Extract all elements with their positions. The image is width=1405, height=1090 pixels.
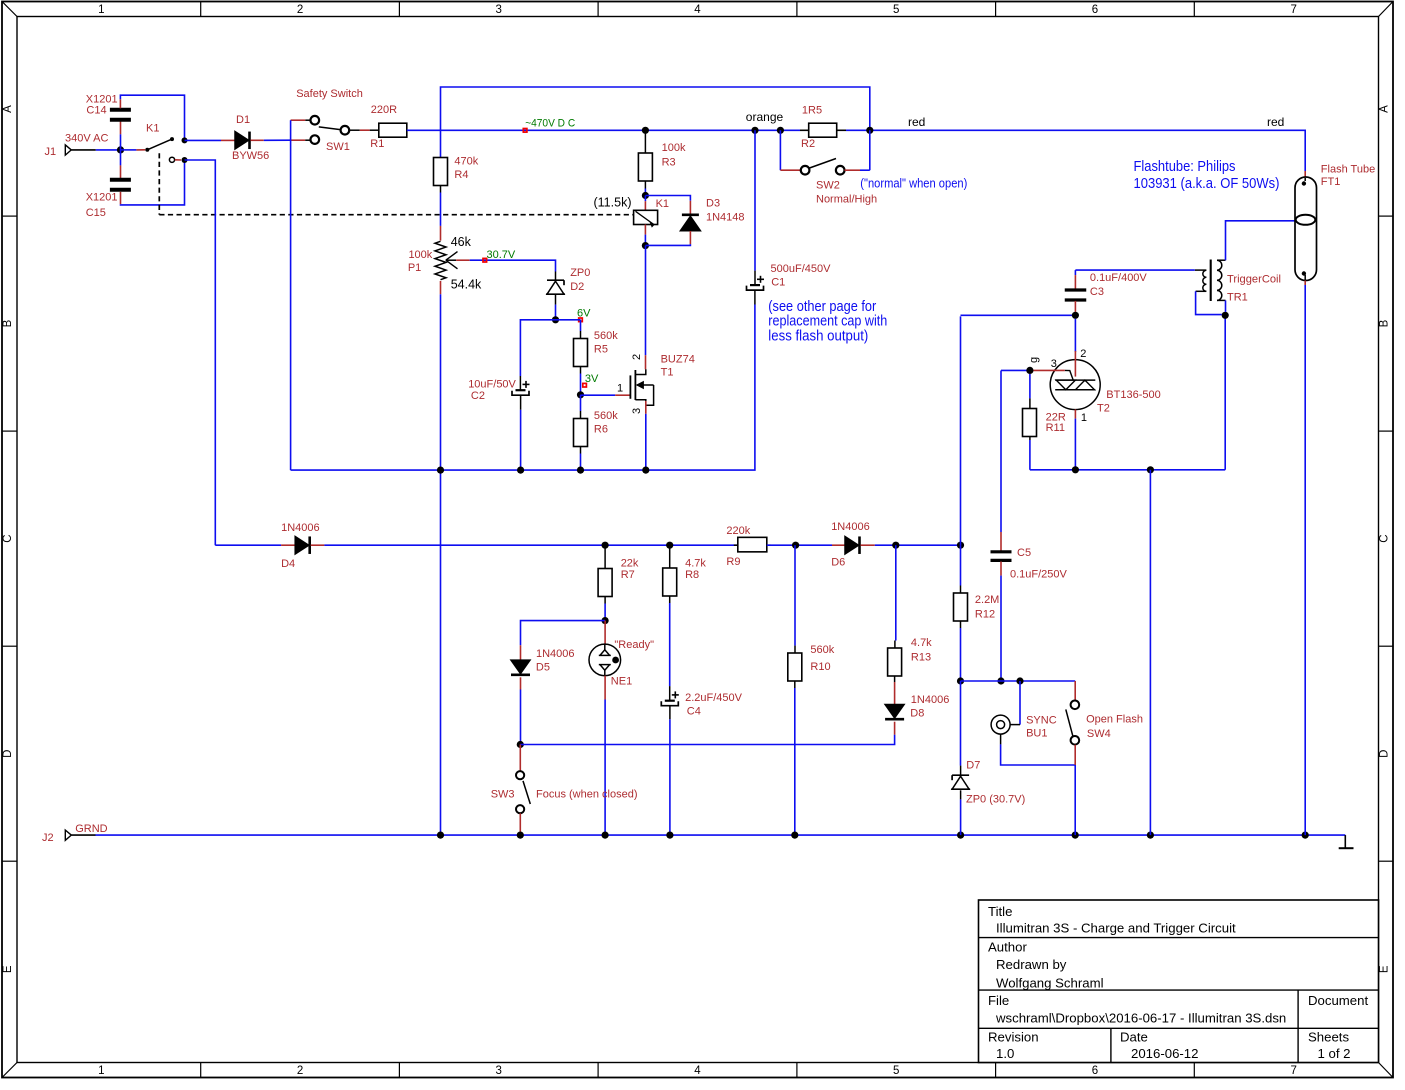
svg-text:C14: C14 [86,104,106,116]
resistor R10 560k [794,545,796,645]
svg-text:R9: R9 [726,556,740,568]
wire R7 to NE1 node [604,597,606,604]
svg-text:("normal" when open): ("normal" when open) [860,177,967,191]
zener diode D2 ZP0 [547,279,564,281]
wire D5 to SW3 node [520,677,522,689]
ground bus junction [791,832,798,839]
ground bus junction [602,832,609,839]
svg-text:220R: 220R [371,104,397,116]
wire R4 to P1 [440,186,442,193]
svg-text:1: 1 [98,4,104,16]
diode D4 1N4006 [295,536,309,554]
resistor R2 1R5 [809,123,837,137]
svg-text:R12: R12 [975,609,995,621]
wire SW1 to R1 [349,129,360,131]
svg-text:TR1: TR1 [1227,291,1248,303]
capacitor C4 2.2uF/450V [665,700,675,702]
wire R3 to relay coil node [644,181,646,189]
wire SW1 upper contact down to common bus [305,119,310,121]
wire coil bottom to T1 drain [645,246,647,356]
svg-text:5: 5 [893,1065,899,1077]
svg-text:1: 1 [617,383,623,395]
svg-text:Redrawn by: Redrawn by [996,957,1067,972]
wire BU1 shell to SW4 bottom [1000,734,1002,744]
capacitor C3 0.1uF/400V [1074,270,1076,275]
svg-text:BT136-500: BT136-500 [1106,389,1160,401]
svg-text:R7: R7 [621,569,635,581]
frame column ticks and numbers [200,2,202,17]
svg-text:D: D [1379,750,1391,758]
resistor R9 220k [734,544,738,546]
svg-text:560k: 560k [810,644,834,656]
svg-text:2: 2 [631,354,643,360]
svg-text:R4: R4 [454,169,468,181]
wire NE1 to ground bus [604,676,606,700]
ground symbol [1344,835,1346,848]
wire node to D5 [521,621,606,646]
svg-text:3: 3 [631,408,643,414]
svg-text:1N4006: 1N4006 [536,648,575,660]
svg-text:X1201: X1201 [86,192,118,204]
svg-text:E: E [1379,965,1391,973]
svg-text:wschraml\Dropbox\2016-06-17 -: wschraml\Dropbox\2016-06-17 - Illumitran… [995,1011,1286,1026]
resistor R11 22R [1029,374,1031,398]
wire flash tube to ground [1304,281,1306,286]
svg-text:340V AC: 340V AC [65,133,108,145]
ground bus junction [1147,832,1154,839]
svg-text:C5: C5 [1017,547,1031,559]
svg-text:red: red [908,115,925,129]
svg-text:Open Flash: Open Flash [1086,714,1143,726]
svg-text:SYNC: SYNC [1026,715,1057,727]
svg-text:D6: D6 [831,557,845,569]
resistor R5 560k [574,339,588,367]
wire mid vertical to ground [1149,470,1151,835]
svg-text:0.1uF/250V: 0.1uF/250V [1010,569,1068,581]
wire C14 top loop to K1 upper contact [119,99,121,108]
ground bus junction dots row C [437,467,444,474]
svg-text:2016-06-12: 2016-06-12 [1131,1046,1198,1061]
diode D6 1N4006 [845,536,859,554]
svg-text:C1: C1 [771,277,785,289]
svg-text:B: B [1379,319,1391,327]
svg-text:K1: K1 [656,198,669,210]
svg-text:J1: J1 [45,146,57,158]
wire 470V rail middle [645,129,800,131]
svg-text:D2: D2 [570,281,584,293]
svg-text:500uF/450V: 500uF/450V [771,263,832,275]
svg-text:7: 7 [1290,4,1296,16]
wire D4 to R7 node [311,544,325,546]
connector J2 GRND [65,830,71,840]
svg-text:1N4148: 1N4148 [706,211,745,223]
svg-text:B: B [2,319,14,327]
zener diode D7 ZP0 [960,681,962,766]
svg-text:10uF/50V: 10uF/50V [468,379,516,391]
capacitor C2 10uF/50V [516,389,526,391]
svg-text:R2: R2 [801,138,815,150]
svg-text:R10: R10 [810,661,830,673]
svg-text:g: g [1028,357,1040,363]
svg-text:Normal/High: Normal/High [816,194,877,206]
resistor R8 4.7k [669,545,671,568]
svg-text:(11.5k): (11.5k) [594,196,632,210]
svg-text:SW1: SW1 [326,141,350,153]
svg-text:orange: orange [746,110,784,124]
wire red rail to flash tube [870,130,1305,171]
svg-text:BUZ74: BUZ74 [661,354,695,366]
svg-text:1N4006: 1N4006 [831,521,870,533]
svg-text:C4: C4 [687,706,701,718]
svg-text:R1: R1 [370,138,384,150]
svg-text:1N4006: 1N4006 [911,694,950,706]
svg-text:SW2: SW2 [816,180,840,192]
svg-text:~470V D C: ~470V D C [525,117,575,129]
wire node down to C15 [120,150,122,166]
svg-text:NE1: NE1 [611,676,632,688]
switch SW2 Normal/High [779,130,781,170]
capacitor C1 500uF/450V [754,130,756,270]
wire P1 wiper to D2 [456,259,470,261]
svg-text:560k: 560k [594,410,618,422]
svg-text:30.7V: 30.7V [487,249,516,261]
svg-text:Focus (when closed): Focus (when closed) [536,789,638,801]
svg-text:3: 3 [1051,358,1057,370]
frame corner diagonals [2,2,17,17]
resistor R7 22k [604,545,606,568]
wire TR1 secondary to flash tube trigger [1226,221,1296,260]
ground bus junction [517,832,524,839]
wire T2 cathode row [1074,409,1076,418]
potentiometer P1 100k [435,241,446,279]
svg-text:R3: R3 [662,157,676,169]
wire C3 node line [960,316,962,545]
svg-text:Safety Switch: Safety Switch [296,88,363,100]
capacitor C5 0.1uF/250V [1000,371,1002,533]
wire 6V node to C2 and R5 [520,320,580,376]
ground bus [71,834,95,836]
svg-text:A: A [2,105,14,113]
capacitor C14 [110,108,131,112]
svg-text:1.0: 1.0 [996,1046,1014,1061]
resistor R13 4.7k [895,545,897,640]
svg-text:SW4: SW4 [1087,728,1111,740]
node 6V [552,316,559,323]
mechanical link dashed line [158,153,160,215]
frame row ticks and letters [2,215,17,217]
ground bus junction [1302,832,1309,839]
wire T1 source to ground bus [645,401,647,414]
svg-text:103931 (a.k.a. OF 50Ws): 103931 (a.k.a. OF 50Ws) [1134,176,1280,192]
svg-text:100k: 100k [662,142,686,154]
neon lamp NE1 [604,621,606,644]
svg-text:P1: P1 [408,262,421,274]
wire R10 to ground bus [794,681,796,688]
node J1/C14/C15/K1 [117,146,124,153]
svg-text:R13: R13 [911,652,931,664]
capacitor C15 [110,178,131,182]
svg-text:K1: K1 [146,122,159,134]
svg-text:2: 2 [1080,348,1086,360]
wire J1 to node [71,149,96,151]
svg-text:4.7k: 4.7k [685,558,706,570]
svg-text:3: 3 [496,4,502,16]
svg-text:D3: D3 [706,198,720,210]
wire 3V node to T1 gate [581,394,616,396]
wire C2 to ground bus [520,395,522,409]
svg-text:470k: 470k [454,156,478,168]
svg-text:T2: T2 [1097,402,1110,414]
svg-text:replacement cap with: replacement cap with [768,314,887,330]
svg-text:red: red [1267,115,1284,129]
svg-text:46k: 46k [451,235,472,249]
svg-text:Flash Tube: Flash Tube [1321,164,1375,176]
wire D6 to R12 node [861,544,875,546]
node R12 bottom [957,677,964,684]
resistor R1 220R [379,123,407,137]
svg-text:6V: 6V [577,308,591,320]
wire node up to C14 [120,134,122,150]
svg-text:0.1uF/400V: 0.1uF/400V [1090,272,1148,284]
diode D5 1N4006 [511,660,530,674]
svg-text:1N4006: 1N4006 [281,522,320,534]
svg-text:1: 1 [1081,412,1087,424]
svg-text:100k: 100k [408,249,432,261]
ground bus junction [1072,832,1079,839]
flash tube FT1 [1295,177,1317,281]
wire R1 to 470V rail [407,129,646,131]
resistor R12 2.2M [960,545,962,585]
wire K1 upper contact to D1 [185,139,222,141]
svg-text:C: C [1379,534,1391,542]
diode D3 1N4148 flyback [645,196,690,201]
T2 gate wire [1033,369,1064,371]
svg-text:1: 1 [98,1065,104,1077]
wire C3 top to TR1 primary [1075,269,1194,271]
svg-text:C: C [2,534,14,542]
wire K1 lower contact to D4 rail [185,160,216,545]
svg-text:2: 2 [297,1065,303,1077]
wire R8 to C4 [669,596,671,603]
ground bus junction [957,832,964,839]
svg-text:A: A [1379,105,1391,113]
wire R9 to D6 [767,544,832,546]
svg-text:Author: Author [988,940,1027,955]
svg-text:"Ready": "Ready" [614,639,654,651]
svg-text:1R5: 1R5 [802,104,822,116]
svg-text:Revision: Revision [988,1030,1039,1045]
switch SW4 Open Flash [1074,681,1076,701]
node 3V [577,391,584,398]
wire C4 to ground bus [669,706,671,719]
net label ~470V DC [523,129,527,133]
trigger transformer TR1 [1195,269,1207,271]
svg-text:J2: J2 [42,832,54,844]
title block [979,900,1379,1063]
wire R2 to red rail [837,129,846,131]
node C3 bottom [1072,312,1079,319]
svg-text:GRND: GRND [75,823,107,835]
svg-text:SW3: SW3 [491,789,515,801]
svg-text:D: D [2,750,14,758]
svg-text:6: 6 [1092,1065,1098,1077]
svg-text:560k: 560k [594,330,618,342]
svg-text:22k: 22k [621,558,639,570]
svg-text:2.2M: 2.2M [975,594,999,606]
svg-text:C3: C3 [1090,286,1104,298]
svg-text:2.2uF/450V: 2.2uF/450V [685,692,743,704]
MOSFET T1 BUZ74 [629,375,631,398]
svg-text:D1: D1 [236,114,250,126]
svg-text:Sheets: Sheets [1308,1030,1349,1045]
top loop wire 470V [441,87,870,158]
wire P1 bottom to ground bus [440,281,442,294]
svg-text:FT1: FT1 [1321,176,1341,188]
svg-text:54.4k: 54.4k [451,277,482,291]
svg-text:4: 4 [694,4,701,16]
svg-text:Title: Title [988,904,1012,919]
svg-text:4.7k: 4.7k [911,637,932,649]
svg-text:File: File [988,993,1009,1008]
svg-text:4: 4 [694,1065,701,1077]
svg-text:220k: 220k [726,525,750,537]
P1 wiper arrow [446,259,456,261]
svg-text:BYW56: BYW56 [232,150,269,162]
svg-text:D5: D5 [536,662,550,674]
resistor R4 470k [434,158,448,186]
svg-text:D7: D7 [966,760,980,772]
wire R13 to D8 [894,676,896,682]
svg-text:BU1: BU1 [1026,728,1047,740]
ground bus junction [437,832,444,839]
wire D2 to 6V node [555,295,557,305]
svg-text:R11: R11 [1046,422,1065,434]
resistor R3 100k [644,130,646,153]
node line SYNC/SW4 [961,680,1076,682]
svg-text:3V: 3V [585,373,599,385]
relay coil K1 [644,196,646,202]
svg-text:ZP0: ZP0 [570,267,590,279]
wire node to K1 pivot [121,149,137,151]
connector BU1 SYNC [1019,681,1021,725]
node relay coil bottom [642,242,649,249]
wire R5 to 3V node [580,367,582,374]
wire D8 to D5 node [894,722,896,735]
svg-text:C2: C2 [471,390,485,402]
svg-text:TriggerCoil: TriggerCoil [1227,274,1281,286]
svg-text:less flash output): less flash output) [768,328,868,344]
diode D8 1N4006 [885,705,904,719]
svg-text:R8: R8 [685,569,699,581]
wire C1 to ground bus corner [754,290,756,304]
svg-text:7: 7 [1290,1065,1296,1077]
switch SW3 Focus [519,745,521,772]
svg-text:Wolfgang Schraml: Wolfgang Schraml [996,976,1104,991]
svg-text:3: 3 [496,1065,502,1077]
svg-text:2: 2 [297,4,303,16]
svg-text:D8: D8 [910,708,924,720]
resistor R6 560k [580,395,582,411]
ground bus junction [666,832,673,839]
svg-text:Document: Document [1308,993,1368,1008]
wire D1 to SW1 [251,139,264,141]
svg-text:1 of 2: 1 of 2 [1318,1046,1351,1061]
diode D1 [235,132,249,150]
wire C15 bottom to K1 lower contact [120,192,122,204]
svg-text:R5: R5 [594,344,608,356]
svg-text:Illumitran 3S - Charge and Tri: Illumitran 3S - Charge and Trigger Circu… [996,921,1236,936]
svg-text:5: 5 [893,4,899,16]
wire R6 to ground bus [580,447,582,454]
triac T2 BT136-500 [1074,319,1076,352]
svg-text:Flashtube: Philips: Flashtube: Philips [1134,159,1236,175]
svg-text:C15: C15 [86,207,106,219]
svg-text:D4: D4 [281,558,295,570]
connector J1 [65,145,71,155]
rail to diode D4 [215,544,281,546]
svg-text:T1: T1 [661,367,674,379]
svg-text:Date: Date [1120,1030,1148,1045]
svg-text:ZP0 (30.7V): ZP0 (30.7V) [966,794,1025,806]
svg-text:E: E [2,965,14,973]
svg-text:6: 6 [1092,4,1098,16]
svg-text:R6: R6 [594,424,608,436]
node TR1 bottom [1222,312,1229,319]
